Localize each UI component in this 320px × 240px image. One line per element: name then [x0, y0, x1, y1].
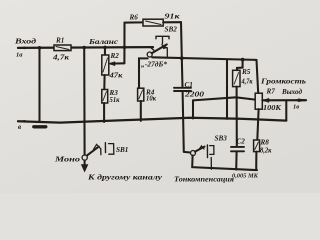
- svg-text:SB3: SB3: [215, 135, 228, 143]
- wire R7 bottom to R8: [257, 109, 258, 140]
- svg-text:4,7к: 4,7к: [241, 79, 253, 86]
- wire V5 H3 to rail: [226, 60, 228, 119]
- resistor R6: [125, 14, 182, 27]
- svg-text:1в: 1в: [293, 104, 299, 111]
- svg-text:R8: R8: [260, 138, 270, 146]
- wire V2 node B down to SB1: [83, 48, 85, 155]
- wire SB2 contact to R4: [139, 58, 148, 88]
- svg-text:1а: 1а: [16, 52, 23, 59]
- node B junction: [82, 46, 86, 50]
- svg-text:С2: С2: [237, 138, 246, 146]
- ground symbol: [34, 125, 46, 128]
- wire V1 node A to rail: [38, 48, 40, 122]
- wire R2 top: [103, 46, 107, 55]
- svg-text:SB1: SB1: [116, 146, 128, 154]
- svg-text:К другому каналу: К другому каналу: [87, 173, 163, 182]
- resistor R4: [138, 88, 157, 102]
- svg-text:0,005 МК: 0,005 МК: [232, 173, 259, 180]
- svg-text:Вход: Вход: [14, 38, 37, 46]
- wire R2 to R3: [103, 75, 105, 90]
- wire output riser: [285, 100, 287, 120]
- arrow to other channel: [81, 160, 163, 181]
- resistor R3: [102, 89, 120, 104]
- input terminal Вход: [14, 38, 37, 59]
- potentiometer R7: [255, 60, 307, 112]
- node A junction: [38, 46, 42, 50]
- svg-text:Баланс: Баланс: [88, 38, 119, 46]
- wire H4: [193, 97, 255, 118]
- wire V4 R6 right down to C1: [180, 22, 184, 87]
- wire R6 left riser / R2 wiper riser: [123, 23, 127, 64]
- svg-text:Громкость: Громкость: [260, 78, 307, 86]
- svg-text:100К: 100К: [263, 105, 281, 112]
- svg-text:R2: R2: [110, 52, 120, 60]
- switch SB3: [184, 135, 227, 170]
- wire H1 input line: [18, 46, 153, 49]
- svg-text:в: в: [18, 123, 21, 131]
- resistor R1: [52, 37, 71, 62]
- capacitor C2: [231, 138, 259, 180]
- svg-text:С1: С1: [185, 81, 193, 89]
- svg-text:8,2к: 8,2к: [260, 147, 272, 154]
- svg-text:4,7к: 4,7к: [52, 55, 70, 62]
- svg-text:47к: 47к: [108, 73, 123, 80]
- svg-text:SB2: SB2: [165, 26, 178, 34]
- svg-text:Тонкомпенсация: Тонкомпенсация: [174, 176, 234, 184]
- switch SB1: [54, 143, 129, 164]
- svg-text:10к: 10к: [146, 96, 157, 103]
- resistor R5: [233, 58, 253, 146]
- svg-text:91к: 91к: [165, 14, 181, 21]
- svg-text:R7: R7: [266, 88, 276, 96]
- capacitor C1: [174, 81, 205, 152]
- resistor R8: [254, 138, 272, 154]
- bottom rail: [18, 118, 286, 131]
- switch SB2: [141, 26, 177, 69]
- svg-text:R5: R5: [241, 68, 251, 76]
- node line H3 (-27dB net): [152, 57, 256, 60]
- svg-text:R1: R1: [55, 37, 64, 45]
- svg-text:2200: 2200: [184, 91, 205, 98]
- svg-text:Моно: Моно: [54, 156, 81, 164]
- svg-text:51к: 51к: [110, 97, 121, 104]
- wire R3 bottom to rail: [103, 103, 105, 122]
- wire R8 bottom to bus: [255, 152, 257, 170]
- svg-text:R6: R6: [129, 14, 139, 22]
- wire R4 bottom to rail: [140, 101, 142, 121]
- svg-text:Выход: Выход: [281, 88, 302, 96]
- svg-text:„-27дБ*: „-27дБ*: [141, 60, 167, 69]
- potentiometer R2: [102, 52, 125, 80]
- bus H5 tone network: [192, 156, 257, 171]
